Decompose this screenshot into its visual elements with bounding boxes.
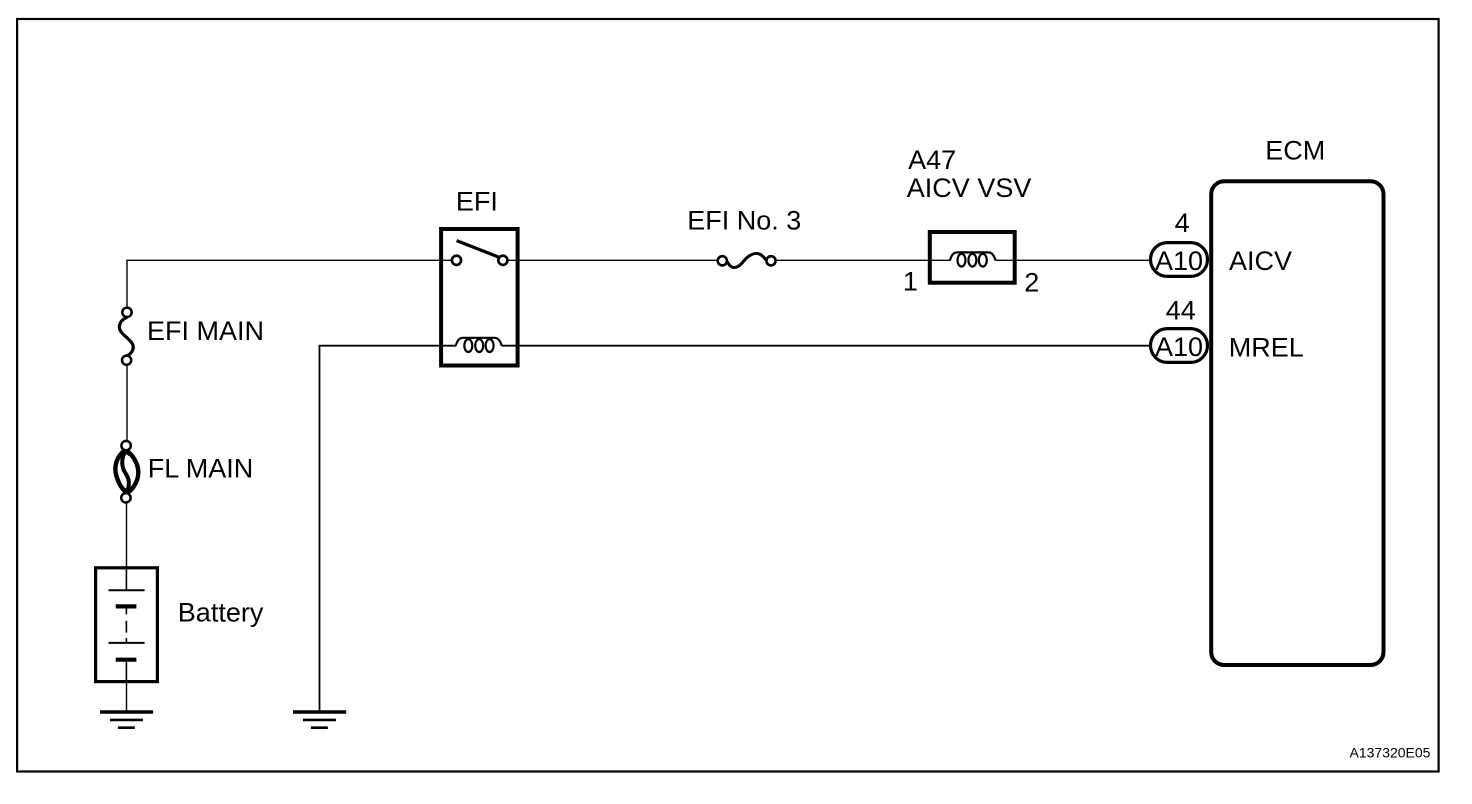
svg-text:44: 44 [1166,296,1196,326]
wire: relay contact to EFI No.3 fuse [508,259,718,261]
connector A10 pin 4 oval [1151,243,1208,277]
fuse element S-curve [727,254,766,268]
svg-text:AICV VSV: AICV VSV [907,173,1032,203]
ground (relay coil return) [293,712,346,728]
svg-text:AICV: AICV [1229,246,1292,276]
FL MAIN terminal top [121,441,130,450]
svg-text:EFI: EFI [456,186,498,216]
EFI MAIN terminal bottom [122,356,131,365]
relay switch contact terminal left [452,256,461,265]
svg-text:EFI MAIN: EFI MAIN [147,316,264,346]
svg-text:A137320E05: A137320E05 [1350,744,1431,760]
svg-text:FL MAIN: FL MAIN [148,453,254,483]
wire: EFI MAIN fuse to FL MAIN fusible link [126,365,128,441]
wire: battery feed from node B+ up and right to EFI relay contact [127,260,452,307]
wire: ground riser up to relay coil line (MREL return) [320,346,457,711]
VSV coil [950,252,996,266]
FL MAIN terminal bottom [121,493,130,502]
svg-text:A47: A47 [908,145,956,175]
fuse terminal right [766,256,775,265]
wire: battery negative to ground [126,682,128,712]
svg-text:A10: A10 [1155,246,1203,276]
svg-text:EFI No. 3: EFI No. 3 [687,205,801,235]
wire: FL MAIN fusible link to battery [126,503,128,567]
svg-text:2: 2 [1024,268,1039,298]
VSV A47 box [930,232,1015,283]
svg-text:Battery: Battery [178,598,264,628]
wire: relay coil to ECM pin 44 (A10) [502,345,1152,347]
fuse terminal left [718,256,727,265]
relay switch contact terminal right [498,256,507,265]
wire: EFI No.3 fuse to AICV VSV coil [776,259,951,261]
svg-text:4: 4 [1175,208,1190,238]
FL MAIN element (twisted leaf) [115,450,138,494]
svg-text:ECM: ECM [1265,136,1325,166]
svg-text:A10: A10 [1155,332,1203,362]
EFI MAIN terminal top [122,308,131,317]
relay switch blade [457,241,499,258]
wire: AICV VSV to ECM pin 4 (A10) [996,259,1153,261]
battery internal plates [109,567,145,683]
ECM box [1211,181,1383,665]
relay EFI box [441,229,517,366]
connector A10 pin 44 oval [1151,329,1208,363]
ground (battery) [100,712,153,728]
svg-text:MREL: MREL [1229,332,1304,362]
relay coil [456,338,502,352]
battery box [96,568,158,682]
svg-text:1: 1 [903,267,918,297]
EFI MAIN fuse element S-curve [119,317,133,356]
